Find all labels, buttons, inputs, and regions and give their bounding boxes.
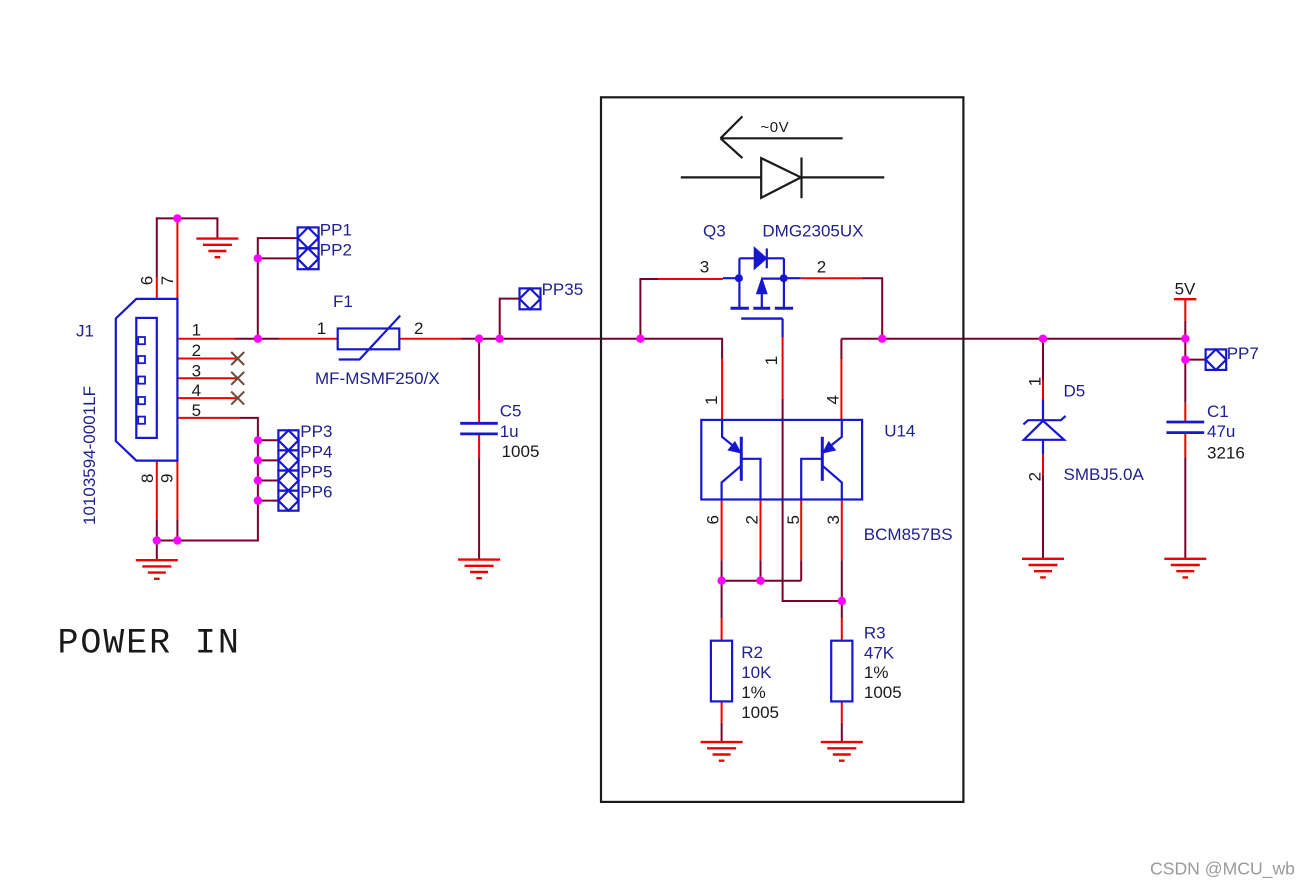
svg-text:PP35: PP35 — [542, 280, 584, 299]
Q3 channel bar 2 — [753, 307, 770, 310]
svg-text:Q3: Q3 — [703, 221, 726, 240]
testpoint PP35 diamond — [520, 288, 541, 309]
pin 2 of F1 (red stub) — [399, 338, 461, 340]
wire 5V to rail — [1184, 321, 1186, 360]
svg-text:4: 4 — [823, 395, 842, 404]
svg-text:C5: C5 — [500, 402, 522, 421]
wire U14 pin4 corner to rail — [840, 339, 842, 359]
svg-text:~0V: ~0V — [761, 119, 790, 136]
annotation diode line — [681, 176, 885, 178]
wire C1 to ground — [1184, 457, 1186, 559]
wire C5 branch down — [478, 339, 480, 400]
dual transistor U14 BCM857BS — [701, 420, 862, 500]
junction J1 pin9 bottom — [173, 536, 181, 544]
wire J1 pin6 vertical — [156, 217, 158, 277]
svg-text:10103594-0001LF: 10103594-0001LF — [80, 386, 99, 525]
Q3 gate plate — [741, 317, 782, 319]
wire R3 to ground — [841, 723, 843, 742]
pin 1 of C1 (red stub) — [1184, 403, 1186, 422]
capacitor C5 bottom plate — [460, 432, 498, 435]
testpoint PP2 square — [298, 248, 319, 269]
pin 2 of C5 (red stub) — [478, 434, 480, 459]
U14 right PNP emitter arrow — [824, 443, 834, 452]
svg-text:47K: 47K — [864, 644, 895, 663]
connector J1 contact square 4 — [138, 397, 145, 404]
pin 2 of D5 (red stub) — [1042, 454, 1044, 475]
svg-text:1: 1 — [317, 319, 326, 338]
testpoint PP5 diamond — [278, 471, 298, 491]
wire Q3 gate down through U14 to R3 node — [783, 399, 842, 601]
U14 left PNP base bar — [740, 437, 743, 481]
Q3 channel bar 1 — [731, 307, 749, 310]
testpoint PP7 diamond — [1206, 349, 1227, 370]
wire rail right section — [841, 338, 1185, 340]
no-connect X on pin 2 — [231, 352, 244, 365]
svg-text:1: 1 — [192, 320, 201, 339]
svg-text:PP3: PP3 — [300, 422, 332, 441]
no-connect X on pin 4 — [231, 392, 244, 405]
pin 2 of R2 (red stub) — [721, 701, 723, 722]
svg-text:4: 4 — [192, 381, 201, 400]
pin of 5V flag (red stub) — [1184, 299, 1186, 321]
svg-text:1005: 1005 — [864, 683, 902, 702]
D5 cathode lead — [1042, 400, 1044, 421]
svg-text:DMG2305UX: DMG2305UX — [762, 221, 863, 240]
wire to J1 bottom ground — [156, 541, 158, 561]
pin 7 of J1 (red wire) — [176, 218, 178, 299]
ground under D5 — [1022, 559, 1064, 578]
pin 5 of U14 (red stub) — [800, 500, 802, 561]
pin 6 of J1 (red stub) — [156, 277, 158, 300]
wire pin8 to bottom junction — [156, 520, 158, 541]
transistor Q3 P-MOSFET — [723, 248, 801, 337]
U14 box — [701, 420, 862, 500]
U14 left PNP collector — [722, 466, 742, 500]
svg-text:POWER IN: POWER IN — [58, 624, 241, 664]
svg-text:SMBJ5.0A: SMBJ5.0A — [1064, 465, 1145, 484]
Q3 left vertical — [738, 258, 740, 308]
wire rail J1 to F1 — [235, 338, 279, 340]
ground under R2 — [701, 742, 743, 761]
Q3 source lead — [723, 277, 739, 279]
U14 left PNP emitter — [722, 420, 740, 452]
Q3 body diode cathode bar — [766, 248, 768, 268]
Q3 right vertical — [783, 258, 785, 308]
testpoint PP2 diamond — [298, 248, 319, 269]
fuse F1 strike line — [339, 316, 401, 360]
pin 3 of U14 (red stub) — [841, 500, 843, 561]
wire pin5 to base node — [800, 560, 802, 580]
svg-text:PP2: PP2 — [320, 241, 352, 260]
testpoint PP4 square — [278, 450, 298, 470]
svg-text:C1: C1 — [1207, 402, 1229, 421]
testpoint PP1 square — [298, 227, 319, 248]
junction PP7 node — [1181, 355, 1189, 363]
ground under C1 — [1164, 559, 1206, 578]
pin 8 of J1 (red stub) — [156, 461, 158, 520]
junction PP4 node — [254, 456, 262, 464]
D5 triangle — [1024, 421, 1064, 440]
svg-text:3: 3 — [192, 361, 201, 380]
wire pin3 down to R3 — [841, 560, 843, 618]
ground under R3 — [821, 742, 863, 761]
U14 right PNP base lead — [801, 459, 821, 500]
wire base node horizontal — [722, 580, 802, 582]
no-connect X on pin 3 — [231, 372, 244, 385]
wire junction down to rail — [257, 258, 259, 338]
wire C5 to ground — [478, 459, 480, 560]
Q3 top line (body diode path) — [739, 257, 784, 259]
ground under J1 — [136, 560, 178, 579]
svg-text:1: 1 — [762, 356, 781, 365]
junction rail at D5 — [1039, 335, 1047, 343]
svg-text:1%: 1% — [741, 683, 766, 702]
svg-text:3: 3 — [700, 258, 709, 277]
junction rail at box entry — [636, 335, 644, 343]
resistor R3 body — [831, 641, 852, 702]
svg-text:F1: F1 — [333, 292, 353, 311]
Q3 drain lead — [784, 277, 801, 279]
Q3 substrate arrow — [757, 280, 766, 293]
U14 right PNP collector — [822, 466, 842, 500]
svg-text:R3: R3 — [864, 624, 886, 643]
power flag 5V bar — [1174, 298, 1197, 300]
pin 4 of U14 (red stub) — [840, 359, 842, 420]
wire rail to U14 pin1 corner — [640, 339, 722, 359]
svg-text:2: 2 — [743, 515, 762, 524]
wire J1 top to ground (net VBUS shield) — [156, 218, 218, 238]
svg-text:MF-MSMF250/X: MF-MSMF250/X — [315, 369, 440, 388]
wire Q3 pin2 down to rail — [862, 278, 882, 339]
D5 cathode bar with zener wings — [1023, 416, 1065, 425]
wire stub to PP5 — [258, 480, 279, 482]
annotation diode cathode bar — [800, 158, 802, 199]
ground under C5 — [458, 560, 500, 579]
junction PP2 node — [254, 254, 262, 262]
svg-text:PP6: PP6 — [300, 483, 332, 502]
capacitor C1 bottom plate — [1166, 431, 1204, 434]
wire to PP7 — [1185, 359, 1205, 361]
junction J1 pin8 bottom — [153, 536, 161, 544]
testpoint PP1 diamond — [298, 227, 319, 248]
junction PP6 node — [254, 496, 262, 504]
connector J1 contact square 1 — [138, 337, 145, 344]
pin 1 of U14 (red stub) — [721, 359, 723, 420]
pin 2 of U14 (red stub) — [760, 500, 762, 561]
svg-text:PP4: PP4 — [300, 442, 332, 461]
wire pin5 to testpoint chain — [156, 418, 258, 541]
testpoint PP5 square — [278, 471, 298, 491]
svg-text:1u: 1u — [500, 422, 519, 441]
svg-text:R2: R2 — [741, 643, 763, 662]
wire pin9 to bottom junction — [176, 520, 178, 541]
svg-text:1: 1 — [1026, 377, 1045, 386]
pin 1 of J1 (red stub) — [177, 338, 235, 340]
junction PP5 node — [254, 476, 262, 484]
fuse F1 body — [338, 329, 400, 350]
capacitor C1 top plate — [1166, 421, 1204, 424]
svg-text:5V: 5V — [1175, 279, 1196, 298]
wire pin6 to base node — [721, 560, 723, 580]
wire R2 to ground — [721, 723, 723, 742]
Q3 gate lead — [781, 319, 783, 337]
junction rail at J1 pin1 — [254, 335, 262, 343]
U14 left PNP emitter arrow — [729, 443, 739, 452]
testpoint PP3 diamond — [278, 430, 298, 450]
Q3 source dot — [735, 274, 743, 282]
junction U14 pin2 base node — [756, 577, 764, 585]
annotation diode triangle — [761, 158, 801, 198]
connector J1 body outline — [116, 299, 178, 461]
U14 right PNP emitter — [823, 420, 841, 452]
svg-text:U14: U14 — [884, 422, 915, 441]
svg-text:D5: D5 — [1064, 381, 1086, 400]
testpoint PP35 square — [520, 288, 541, 309]
testpoint PP6 diamond — [278, 491, 298, 511]
svg-text:7: 7 — [158, 276, 177, 285]
svg-text:J1: J1 — [76, 322, 94, 341]
svg-text:3: 3 — [824, 515, 843, 524]
svg-text:6: 6 — [138, 276, 157, 285]
U14 left PNP base lead — [742, 459, 761, 500]
pin 3 of Q3 (red stub) — [658, 278, 723, 280]
connector J1 contact square 2 — [138, 356, 145, 363]
pin 1 of R3 (red stub) — [841, 619, 843, 641]
junction rail at PP35 — [496, 335, 504, 343]
Q3 channel bar 3 — [775, 307, 793, 310]
svg-text:47u: 47u — [1207, 422, 1235, 441]
pin 1 of D5 (red stub) — [1042, 381, 1044, 400]
svg-text:5: 5 — [192, 401, 201, 420]
pin 2 of Q3 (red stub) — [801, 277, 862, 279]
annotation protection box — [601, 97, 963, 802]
junction J1 pin7 top — [173, 214, 181, 222]
svg-text:2: 2 — [1026, 472, 1045, 481]
Q3 substrate line to drain — [762, 278, 784, 280]
pin 6 of U14 (red stub) — [721, 500, 723, 561]
pin 9 of J1 (red stub) — [176, 461, 178, 520]
wire D5 branch — [1042, 339, 1044, 381]
wire stub to PP6 — [258, 500, 279, 502]
wire PP1 to junction — [258, 238, 298, 258]
testpoint PP6 square — [278, 491, 298, 511]
pin 2 of J1 (red stub, no connect) — [177, 358, 237, 360]
junction gate to R3 node — [838, 597, 846, 605]
connector J1 inner rectangle — [136, 318, 157, 438]
wire R2 branch — [721, 581, 723, 619]
junction U14 pin6 base node — [717, 577, 725, 585]
connector J1 contact square 3 — [138, 377, 145, 384]
svg-text:1005: 1005 — [741, 703, 779, 722]
pin 4 of J1 (red stub, no connect) — [177, 397, 237, 399]
svg-text:1005: 1005 — [502, 442, 540, 461]
junction rail at C5 — [475, 335, 483, 343]
connector J1 contact square 5 — [138, 417, 145, 424]
svg-text:5: 5 — [784, 515, 803, 524]
svg-text:CSDN @MCU_wb: CSDN @MCU_wb — [1150, 859, 1295, 880]
wire rail into protection box, up to Q3 pin3 — [640, 279, 658, 339]
Q3 substrate stem — [761, 292, 763, 308]
junction PP3 node — [254, 436, 262, 444]
Q3 drain dot — [780, 274, 788, 282]
svg-text:1: 1 — [702, 396, 721, 405]
svg-text:PP5: PP5 — [300, 462, 332, 481]
U14 right PNP base bar — [821, 437, 824, 481]
pin 5 of J1 (red stub) — [177, 417, 240, 419]
pin 2 of C1 (red stub) — [1184, 433, 1186, 458]
wire stub to PP3 — [258, 439, 279, 441]
svg-text:PP1: PP1 — [320, 220, 352, 239]
svg-text:10K: 10K — [741, 663, 772, 682]
junction rail at Q3 drain — [878, 335, 886, 343]
svg-text:BCM857BS: BCM857BS — [864, 525, 953, 544]
D5 anode lead — [1042, 440, 1044, 455]
Q3 body diode triangle — [755, 249, 766, 268]
pin 3 of J1 (red stub, no connect) — [177, 377, 237, 379]
zener diode D5 — [1023, 400, 1065, 455]
ground top-left — [196, 239, 238, 258]
testpoint PP4 diamond — [278, 450, 298, 470]
annotation current arrow — [721, 116, 843, 158]
capacitor C5 top plate — [460, 422, 498, 425]
pin 2 of R3 (red stub) — [841, 701, 843, 722]
wire rail F1 to C5 node — [461, 338, 640, 340]
svg-text:9: 9 — [158, 474, 177, 483]
wire C1 branch — [1184, 360, 1186, 403]
svg-text:6: 6 — [703, 515, 722, 524]
testpoint PP3 square — [278, 430, 298, 450]
wire D5 to ground — [1042, 475, 1044, 559]
wire PP35 branch — [500, 299, 520, 339]
pin 1 of R2 (red stub) — [721, 619, 723, 641]
pin 1 of F1 (red stub) — [279, 338, 338, 340]
wire pin2 to base node — [760, 560, 762, 580]
wire stub to PP4 — [258, 459, 279, 461]
testpoint PP7 square — [1206, 349, 1227, 370]
svg-text:2: 2 — [192, 341, 201, 360]
pin 1 of Q3 gate (red stub) — [782, 337, 784, 399]
svg-text:2: 2 — [817, 258, 826, 277]
svg-text:8: 8 — [138, 474, 157, 483]
resistor R2 body — [711, 641, 732, 702]
svg-text:2: 2 — [414, 319, 423, 338]
pin 1 of C5 (red stub) — [478, 400, 480, 423]
svg-text:3216: 3216 — [1207, 443, 1245, 462]
junction rail at 5V — [1181, 335, 1189, 343]
svg-text:1%: 1% — [864, 663, 889, 682]
svg-text:PP7: PP7 — [1227, 344, 1259, 363]
wire PP2 to junction — [258, 257, 298, 259]
